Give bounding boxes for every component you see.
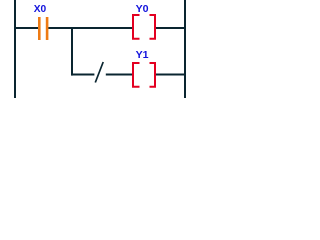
wire rung2 left segment bbox=[71, 74, 94, 76]
contact X0 bbox=[38, 17, 48, 40]
coil Y1 bbox=[133, 63, 155, 87]
svg-text:X0: X0 bbox=[34, 3, 47, 15]
wire rung2 right segment bbox=[156, 74, 184, 76]
contact NC slash bbox=[95, 62, 103, 83]
wire rung1 right segment bbox=[156, 27, 184, 29]
wire rung1 middle segment bbox=[48, 27, 132, 29]
background bbox=[0, 0, 192, 98]
coil Y0 bbox=[133, 15, 155, 39]
svg-text:Y0: Y0 bbox=[136, 3, 149, 15]
wire rung1 left segment bbox=[16, 27, 38, 29]
wire rung2 middle segment bbox=[106, 74, 132, 76]
svg-text:Y1: Y1 bbox=[136, 49, 149, 61]
right power rail bbox=[184, 0, 186, 98]
left power rail bbox=[14, 0, 16, 98]
node branch junction bbox=[71, 27, 73, 76]
